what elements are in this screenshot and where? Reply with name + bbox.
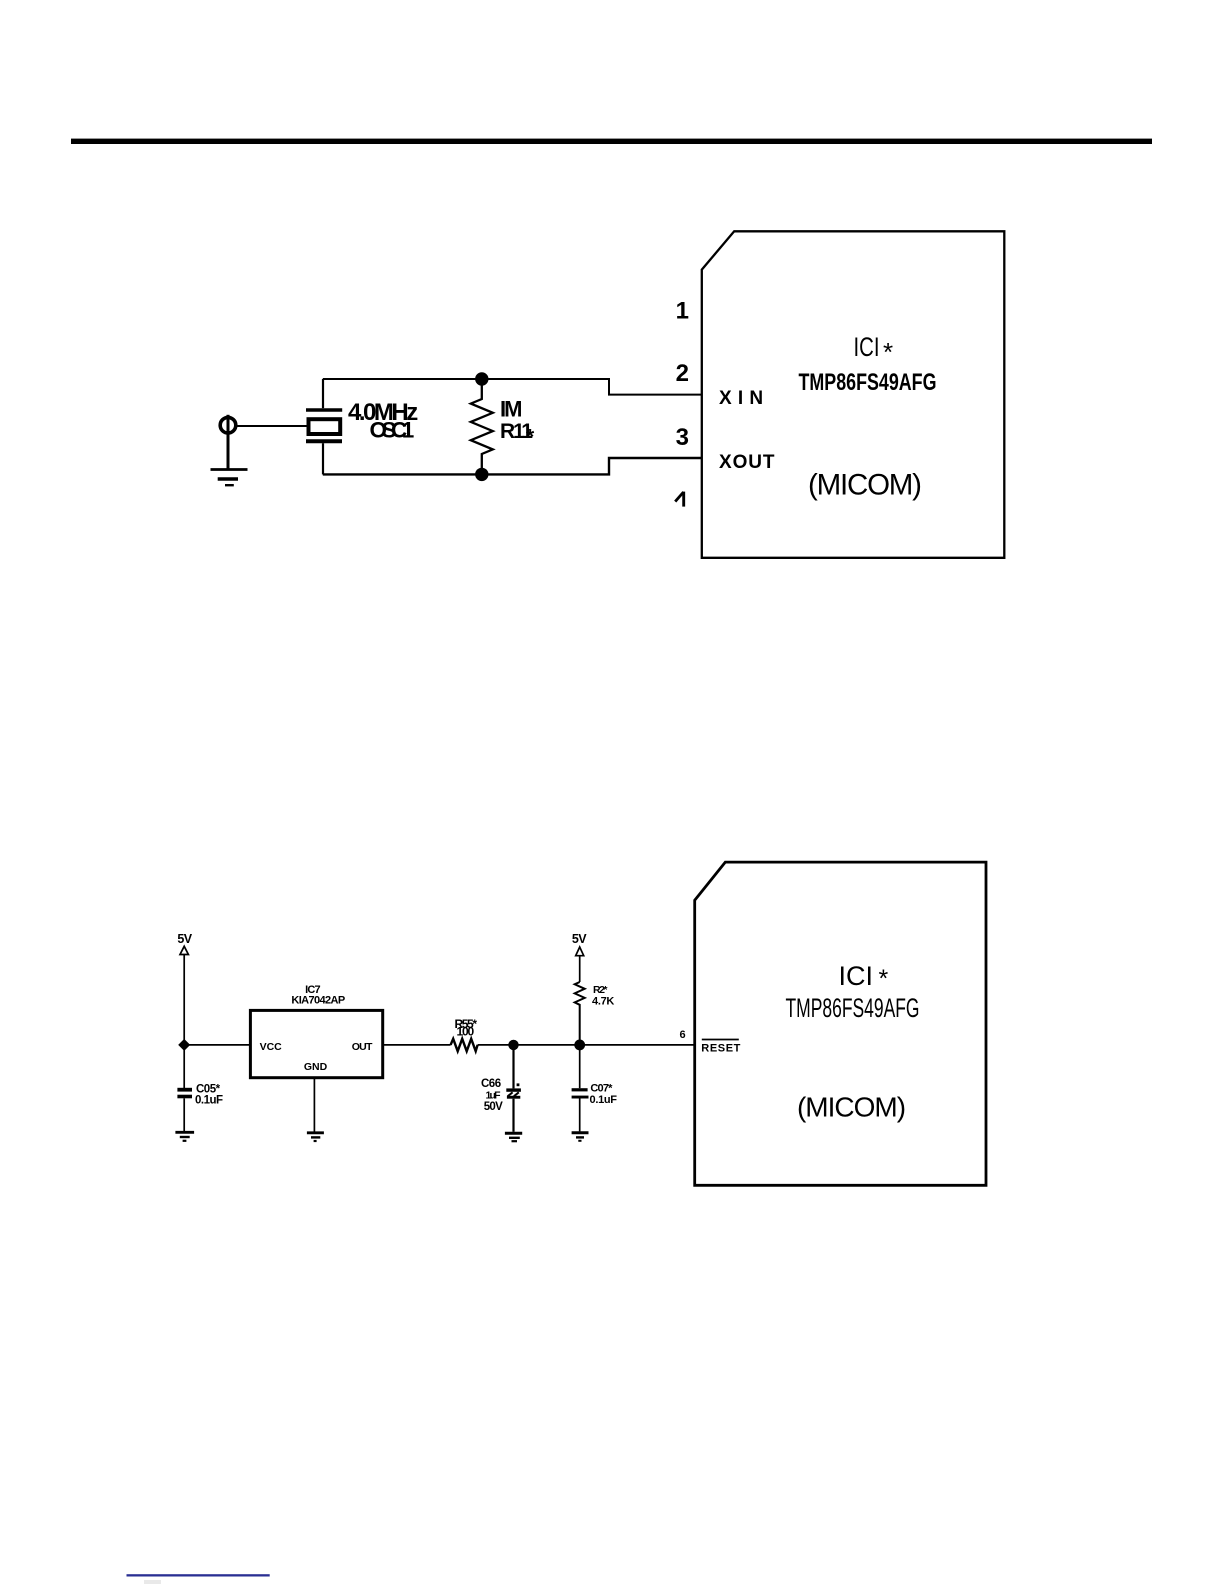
- power 5V (right): [572, 932, 587, 982]
- capacitor C66 (electrolytic): [506, 1045, 521, 1132]
- terminal circle: [220, 415, 236, 470]
- svg-text:XOUT: XOUT: [719, 452, 775, 473]
- wire: top rail crystal to step: [323, 379, 702, 395]
- label C66: [481, 1078, 501, 1090]
- label TMP86FS49AFG (bottom): [786, 993, 920, 1023]
- wire node B to node C: [514, 1044, 580, 1046]
- power 5V (left): [177, 932, 192, 1045]
- label R55*: [455, 1017, 478, 1031]
- label 1uF: [486, 1089, 502, 1101]
- svg-text:ICI: ICI: [839, 961, 874, 991]
- label 0.1uF (C07): [590, 1094, 618, 1106]
- crystal X1 4.0MHz: [306, 379, 342, 474]
- svg-text:GND: GND: [304, 1061, 328, 1073]
- wire: bottom rail crystal to XOUT: [323, 458, 702, 474]
- IC U1 (top MICOM) outline: [702, 231, 1005, 558]
- pin 2 label: [676, 360, 689, 387]
- node A (VCC rail junction): [178, 1039, 190, 1051]
- label C05*: [196, 1084, 221, 1096]
- label IC7: [305, 984, 320, 996]
- label TMP86FS49AFG (top): [799, 369, 937, 396]
- ground (top circuit): [211, 470, 248, 486]
- wire node C to IC pin 6: [580, 1044, 695, 1046]
- label XIN: [719, 388, 769, 409]
- label IC1* (top): [854, 332, 894, 367]
- svg-text:0.1uF: 0.1uF: [590, 1094, 618, 1106]
- svg-text:KIA7042AP: KIA7042AP: [291, 995, 345, 1007]
- node C junction: [574, 1040, 585, 1051]
- ground (C66): [505, 1133, 522, 1141]
- IC U1 (bottom MICOM) outline: [695, 862, 986, 1185]
- svg-text:XIN: XIN: [719, 388, 769, 409]
- svg-text:TMP86FS49AFG: TMP86FS49AFG: [786, 993, 920, 1023]
- label XOUT: [719, 452, 775, 473]
- node B junction: [508, 1040, 518, 1050]
- svg-text:5V: 5V: [572, 932, 587, 946]
- svg-text:0.1uF: 0.1uF: [195, 1095, 223, 1107]
- pin label GND: [304, 1061, 328, 1073]
- svg-text:4.7K: 4.7K: [592, 995, 614, 1007]
- wire crystal case to terminal: [228, 425, 308, 427]
- svg-text:*: *: [879, 965, 889, 993]
- resistor R11: [471, 379, 493, 474]
- wire R55 to node B: [478, 1044, 514, 1046]
- svg-text:VCC: VCC: [260, 1041, 283, 1053]
- svg-text:*: *: [883, 337, 893, 367]
- ground (IC7): [307, 1133, 324, 1141]
- label 1M: [500, 396, 521, 421]
- svg-text:6: 6: [679, 1029, 685, 1041]
- capacitor C05: [177, 1045, 192, 1131]
- pin 1 label: [676, 297, 689, 324]
- label KIA7042AP: [291, 995, 345, 1007]
- wire IC7 OUT to R55: [383, 1044, 451, 1046]
- footer blue rule: [127, 1574, 270, 1576]
- node junction bottom of R11: [475, 468, 488, 481]
- svg-text:ICI: ICI: [854, 332, 880, 362]
- node junction top of R11: [475, 372, 488, 385]
- svg-text:3: 3: [676, 424, 689, 451]
- label C07*: [590, 1083, 613, 1095]
- svg-text:C66: C66: [481, 1078, 501, 1090]
- svg-text:*: *: [526, 426, 535, 449]
- svg-text:C07*: C07*: [590, 1083, 613, 1095]
- svg-text:1: 1: [676, 297, 689, 324]
- label 50V: [484, 1101, 503, 1113]
- pin label OUT: [352, 1041, 373, 1053]
- svg-text:(MICOM): (MICOM): [797, 1092, 905, 1123]
- label 4.0MHz: [348, 399, 418, 426]
- svg-text:100: 100: [457, 1025, 475, 1039]
- ground (C05): [175, 1132, 194, 1141]
- capacitor C07: [572, 1045, 589, 1132]
- svg-text:RESET: RESET: [701, 1042, 741, 1054]
- footer faint mark: [144, 1580, 161, 1584]
- label 100: [457, 1025, 475, 1039]
- svg-text:5V: 5V: [177, 932, 192, 946]
- svg-text:OSC1: OSC1: [370, 418, 414, 443]
- svg-text:50V: 50V: [484, 1101, 503, 1113]
- svg-text:IM: IM: [500, 396, 521, 421]
- svg-text:2: 2: [676, 360, 689, 387]
- svg-text:OUT: OUT: [352, 1041, 373, 1053]
- label (MICOM) (bottom): [797, 1092, 905, 1123]
- regulator IC7 KIA7042AP box: [250, 1010, 382, 1077]
- label IC1* (bottom): [839, 961, 889, 993]
- label R2*: [593, 984, 608, 996]
- wire node A to IC7: [184, 1044, 250, 1046]
- label OSC1: [370, 418, 414, 443]
- label (MICOM) (top): [808, 469, 921, 502]
- resistor R55: [451, 1039, 478, 1051]
- svg-text:(MICOM): (MICOM): [808, 469, 921, 502]
- pin 3 label: [676, 424, 689, 451]
- label R11*: [500, 420, 535, 449]
- wire IC7 GND pin: [313, 1078, 315, 1132]
- ground (C07): [572, 1133, 589, 1141]
- header rule: [71, 139, 1152, 144]
- resistor R2: [575, 982, 585, 1045]
- svg-text:TMP86FS49AFG: TMP86FS49AFG: [799, 369, 937, 396]
- label 0.1uF (C05): [195, 1095, 223, 1107]
- label 4.7K: [592, 995, 614, 1007]
- pin 6 label: [679, 1029, 685, 1041]
- pin 4 label: [675, 492, 684, 507]
- pin label RESET (with overline): [701, 1040, 741, 1055]
- pin label VCC: [260, 1041, 283, 1053]
